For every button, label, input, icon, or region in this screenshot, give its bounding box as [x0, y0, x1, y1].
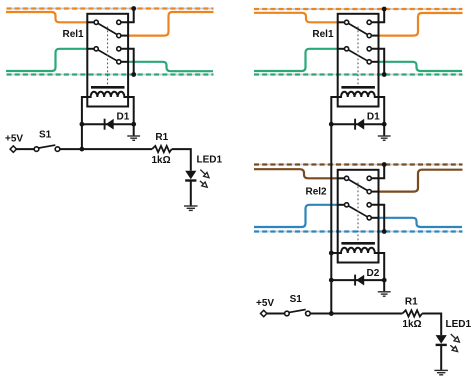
- wire blue output from Rel2 contact: [378, 218, 462, 227]
- LED1 triangle (right): [436, 335, 447, 344]
- wire stub Rel2 throw 1b: [371, 191, 378, 193]
- diode D1 triangle: [106, 119, 114, 130]
- wire brown output from Rel2 contact: [378, 170, 462, 192]
- svg-text:1kΩ: 1kΩ: [402, 319, 421, 330]
- wire stub common 2: [338, 48, 345, 50]
- net brown dashed (load cable): [254, 163, 463, 165]
- wire stub Rel2 throw 2a to dropper: [371, 205, 384, 232]
- relay Rel1 box (right): [338, 14, 379, 107]
- wire orange output from Rel1 contact: [128, 12, 214, 36]
- switch S1 contact circles (right): [285, 311, 311, 316]
- wire green output from Rel1 contact: [378, 62, 462, 71]
- relay Rel1 lever pole 1: [348, 23, 367, 34]
- wire stub throw 1a to riser: [371, 9, 384, 22]
- net orange dashed (load cable) underlay: [7, 8, 214, 10]
- resistor R1 zigzag (right): [402, 310, 422, 316]
- wire feed drop to switch row: [81, 124, 83, 149]
- relay Rel1 lever pole 2: [348, 50, 367, 61]
- wire stub Rel2 throw 1a to riser: [371, 165, 384, 179]
- wire stub common 2: [87, 48, 94, 50]
- net green dashed (load cable) underlay: [254, 74, 463, 76]
- diode D2 triangle: [356, 275, 364, 286]
- relay Rel1 dashed centerline: [357, 27, 359, 87]
- relay Rel2 lever pole 1: [348, 179, 367, 190]
- switch S1 lever: [39, 145, 56, 148]
- junction dots (right): [329, 7, 387, 316]
- wire ground stem D1: [383, 124, 385, 135]
- net blue dashed (load cable): [254, 230, 463, 232]
- LED1 emission arrow lower: [200, 181, 207, 187]
- ground symbol (Rel1 right return): [378, 136, 391, 140]
- terminal +5V diamond: [10, 146, 16, 152]
- LED1 triangle: [185, 171, 196, 179]
- wire switch S1 to resistor R1 (right): [310, 313, 402, 315]
- relay Rel1 coil and terminals: [331, 92, 384, 124]
- diode D1 (right) cathode bar: [354, 119, 356, 130]
- relay Rel1 armature bar: [91, 86, 125, 89]
- LED1 cathode bar (right): [436, 344, 447, 346]
- svg-text:Rel1: Rel1: [63, 29, 85, 40]
- wire stub Rel2 common 2: [338, 204, 345, 206]
- relay Rel1 box: [87, 14, 128, 107]
- wire stub common 1: [338, 21, 345, 23]
- relay Rel2 armature bar: [341, 242, 375, 245]
- wire switch row from terminal: [17, 148, 35, 150]
- diode D2 cathode bar: [354, 275, 356, 286]
- svg-text:D1: D1: [367, 112, 380, 123]
- svg-text:LED1: LED1: [197, 155, 223, 166]
- net orange dashed (load cable): [7, 7, 214, 9]
- wire stub common 1: [87, 21, 94, 23]
- wire switch S1 to resistor R1: [60, 148, 152, 150]
- wire stub Rel2 throw 2b: [371, 217, 378, 219]
- ground symbol (Rel2 return): [378, 292, 391, 296]
- svg-text:LED1: LED1: [446, 319, 472, 330]
- terminal +5V diamond (right): [261, 310, 267, 316]
- wire stub throw 2b: [371, 61, 378, 63]
- svg-text:S1: S1: [39, 130, 52, 141]
- relay Rel1 lever pole 1: [98, 23, 117, 34]
- net green dashed (load cable) underlay: [7, 74, 214, 76]
- wire stub throw 2b: [121, 61, 128, 63]
- relay Rel1 contact circles: [94, 20, 121, 64]
- wire stub throw 1b: [371, 35, 378, 37]
- wire stub Rel2 common 1: [338, 177, 345, 179]
- wire ground stem D2: [383, 280, 385, 291]
- wire ground stem: [133, 124, 135, 135]
- LED1 emission arrow upper: [200, 170, 209, 178]
- svg-text:R1: R1: [155, 132, 168, 143]
- relay Rel2 dashed centerline: [357, 183, 359, 243]
- net green dashed (load cable): [7, 73, 214, 75]
- LED1 emission arrow lower (right): [450, 345, 457, 351]
- relay Rel2 coil and terminals: [331, 248, 384, 280]
- ground symbol (relay return): [127, 136, 140, 140]
- wire orange input to Rel1 common 1: [6, 12, 87, 22]
- wire diode row D1: [82, 123, 134, 125]
- wire LED1 cathode to ground: [190, 180, 192, 205]
- relay Rel1 armature bar: [341, 86, 375, 89]
- wire stub throw 1b: [121, 35, 128, 37]
- wire brown input to Rel2 common 1: [254, 169, 337, 178]
- svg-text:S1: S1: [290, 294, 303, 305]
- LED1 emission arrow upper (right): [451, 334, 460, 342]
- wire switch row from terminal (right): [267, 313, 285, 315]
- diode D1 (right) triangle: [356, 119, 364, 130]
- svg-text:D2: D2: [367, 268, 380, 279]
- switch S1 lever (right): [289, 310, 306, 313]
- wire green input to Rel1 common 2: [6, 49, 87, 71]
- net green dashed (load cable): [254, 73, 463, 75]
- svg-text:+5V: +5V: [256, 298, 274, 309]
- wire resistor to LED1 (right): [422, 314, 441, 336]
- switch S1 contact circles: [34, 147, 60, 152]
- relay Rel1 dashed centerline: [107, 27, 109, 87]
- relay Rel2 box: [338, 170, 379, 263]
- wire LED1 cathode to ground (right): [440, 345, 442, 370]
- relay Rel2 lever pole 2: [348, 206, 367, 217]
- wire green input to Rel1 common 2: [254, 49, 337, 71]
- svg-text:1kΩ: 1kΩ: [152, 155, 171, 166]
- relay Rel2 contact circles: [345, 176, 372, 220]
- wire resistor to LED1: [172, 149, 191, 171]
- wire stub throw 2a to dropper: [121, 49, 134, 75]
- svg-text:Rel1: Rel1: [312, 29, 334, 40]
- ground symbol (LED return right): [434, 370, 448, 374]
- wire main feed drop to switch row: [330, 124, 332, 313]
- wire green output from Rel1 contact: [128, 62, 213, 71]
- junction dots: [80, 6, 137, 151]
- svg-text:+5V: +5V: [5, 134, 23, 145]
- net blue dashed (load cable) underlay: [254, 231, 463, 233]
- svg-text:D1: D1: [117, 112, 130, 123]
- wire diode row D2: [331, 279, 384, 281]
- wire stub throw 2a to dropper: [371, 49, 384, 75]
- wire blue input to Rel2 common 2: [254, 205, 337, 227]
- svg-text:Rel2: Rel2: [306, 186, 328, 197]
- relay Rel1 contact circles (right): [345, 20, 372, 64]
- wire stub throw 1a to riser: [121, 9, 134, 23]
- wire diode row D1 (right): [331, 123, 384, 125]
- relay Rel1 lever pole 2: [98, 50, 117, 61]
- net orange dashed (load cable): [254, 8, 463, 10]
- diode D1 cathode bar: [104, 119, 106, 130]
- net orange dashed (load cable) underlay: [254, 8, 463, 10]
- resistor R1 zigzag: [152, 146, 172, 152]
- LED1 cathode bar: [185, 179, 196, 181]
- relay Rel1 coil and terminals: [82, 92, 134, 124]
- net brown dashed (load cable) underlay: [254, 164, 463, 166]
- wire orange output from Rel1 contact: [378, 13, 462, 36]
- wire orange input to Rel1 common 1: [254, 13, 337, 22]
- ground symbol (LED return): [184, 206, 198, 210]
- svg-text:R1: R1: [405, 297, 418, 308]
